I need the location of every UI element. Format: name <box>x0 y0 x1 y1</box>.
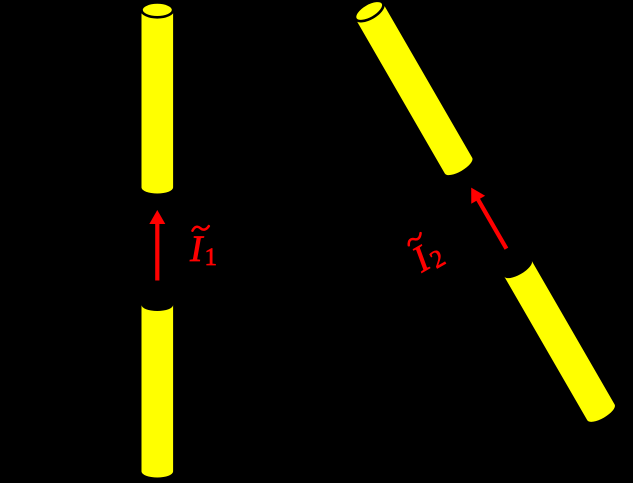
dipole antenna 1 (vertical) <box>142 3 174 478</box>
label I~1 <box>189 226 217 271</box>
tilde over I1 <box>193 226 209 231</box>
antenna 1 lower arm body <box>142 305 174 478</box>
antenna 2 upper arm top face <box>352 0 387 25</box>
antenna 2 lower arm body <box>504 261 617 426</box>
current arrow I2 <box>464 184 513 253</box>
tilde over I2 <box>406 233 422 245</box>
antenna 2 upper arm body <box>356 4 475 179</box>
antenna 1 upper arm top face <box>142 3 174 18</box>
current arrow I1 <box>149 210 165 281</box>
dipole antenna 2 (tilted 30 degrees) <box>291 0 618 461</box>
label I~2 <box>403 229 450 282</box>
svg-text:I: I <box>189 229 204 270</box>
antenna 1 upper arm body <box>142 11 174 194</box>
svg-text:1: 1 <box>205 244 218 271</box>
